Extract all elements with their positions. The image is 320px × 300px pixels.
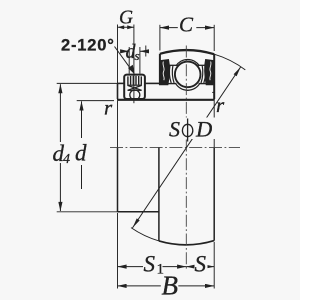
G extension line right / screw centerline upper: [133, 25, 135, 71]
d4 dimension line lower with arrow: [59, 163, 61, 211]
C extension line left: [159, 25, 161, 51]
horizontal axis centerline: [110, 146, 240, 148]
d4 dimension line upper with arrow: [59, 84, 61, 142]
d4 upper extension line: [57, 82, 118, 84]
inner ring right face step tick: [212, 91, 214, 93]
outer ring raceway shoulder right: [198, 64, 208, 66]
set screw hole outline: [124, 75, 145, 99]
inner raceway arc under ball: [175, 83, 200, 90]
set screw bottom circle: [130, 90, 140, 100]
S1/S extension line left: [117, 213, 119, 289]
svg-text:r: r: [216, 93, 225, 117]
vertical bearing centerline: [185, 46, 187, 272]
seal left (black): [160, 60, 170, 85]
svg-text:S: S: [195, 252, 207, 277]
set screw cone point X cross: [128, 85, 142, 90]
B label background gap: [161, 279, 179, 294]
set screw centerline: [133, 71, 135, 104]
d dimension line with up arrow: [81, 101, 83, 138]
svg-text:D: D: [195, 117, 212, 142]
SphiD dimension diagonal line: [132, 67, 240, 228]
inner ring shoulder line left of ball: [167, 83, 177, 85]
seal right (black): [205, 60, 215, 85]
S1 dimension line with arrows: [118, 266, 187, 268]
B dimension line with arrows: [118, 285, 215, 287]
ds extension stub far right: [145, 46, 147, 57]
sphere bottom extension arc (thin, lower-left): [131, 228, 159, 241]
seal right lip squiggle (white): [210, 62, 211, 81]
set screw hatch bottom line: [127, 84, 142, 86]
bore line (inner ring bore): [117, 99, 215, 101]
leader line to set screw: [115, 47, 132, 71]
sphere extension arc top-right (thin, for SphiD dimension): [214, 54, 245, 70]
G dimension line with arrows: [118, 26, 134, 28]
svg-text:G: G: [119, 8, 133, 29]
ball: [175, 62, 201, 88]
sphere bottom silhouette arc: [159, 241, 214, 245]
SphiD arrow upper-right: [234, 67, 241, 76]
d4 lower extension line: [57, 211, 118, 213]
S1/S extension line right: [213, 242, 215, 289]
silhouette outer ring left face edge: [158, 147, 160, 241]
inner ring shoulder line right of ball: [199, 83, 215, 85]
C extension line right: [213, 25, 215, 51]
seal left lip squiggle (white): [163, 62, 164, 81]
S1 label background gap: [143, 257, 163, 272]
svg-text:B: B: [162, 271, 179, 300]
outer ring right face / inner ring right face: [213, 54, 215, 99]
outer ring left face: [159, 54, 161, 85]
cage left: [169, 66, 174, 84]
d extension line (bore): [77, 100, 114, 102]
svg-text:r: r: [104, 96, 113, 120]
svg-text:2-120°: 2-120°: [61, 37, 115, 55]
phi symbol drawn: [182, 124, 192, 136]
silhouette left face: [117, 147, 119, 211]
svg-text:s: s: [135, 48, 140, 63]
extension line right face down to silhouette: [213, 101, 215, 147]
svg-text:S: S: [169, 117, 180, 142]
ds extension stub left: [128, 47, 130, 74]
svg-text:S: S: [144, 252, 156, 277]
outer ring raceway shoulder left: [167, 64, 178, 66]
inner ring left face: [117, 83, 119, 99]
outer ring spherical OD arc: [160, 50, 214, 54]
ds left outside arrow: [121, 50, 129, 52]
inner ring extension OD line (screw to seal): [145, 82, 160, 84]
G extension line left: [117, 25, 119, 84]
ds extension stub right: [139, 47, 141, 74]
svg-text:4: 4: [63, 152, 70, 167]
extension line left face down to silhouette: [117, 101, 119, 147]
inner ring extension OD line (left of screw): [118, 82, 125, 84]
S label background gap: [195, 257, 208, 272]
C dimension line with arrows: [160, 27, 214, 29]
SphiD arrow lower-left: [133, 218, 140, 227]
ds right outside arrow: [140, 50, 148, 52]
set screw threads (hatch): [128, 76, 141, 85]
silhouette inner-ring extension OD: [118, 211, 159, 213]
leader arrowhead: [128, 65, 135, 75]
d dimension line tail below label: [81, 165, 83, 189]
outer raceway arc over ball: [176, 59, 199, 65]
set screw cross bottom line: [128, 89, 142, 91]
silhouette right face edge: [213, 147, 215, 240]
C label background gap: [178, 19, 197, 32]
S dimension line with arrows: [186, 266, 214, 268]
svg-text:d: d: [75, 141, 87, 166]
svg-text:C: C: [179, 13, 194, 37]
cage right: [201, 66, 206, 84]
